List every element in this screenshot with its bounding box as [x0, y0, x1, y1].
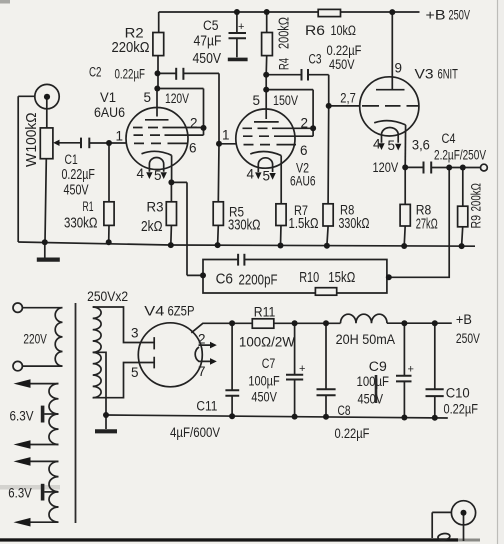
svg-text:6Z5P: 6Z5P: [168, 304, 195, 319]
svg-text:450V: 450V: [358, 392, 384, 407]
svg-text:R4: R4: [276, 58, 292, 70]
svg-text:5: 5: [131, 365, 139, 380]
svg-text:+B: +B: [456, 312, 472, 327]
svg-text:C5: C5: [203, 18, 219, 33]
svg-text:5: 5: [253, 93, 261, 108]
svg-text:+: +: [238, 21, 244, 33]
svg-text:2200pF: 2200pF: [239, 272, 278, 289]
svg-text:R3: R3: [147, 200, 164, 215]
svg-text:W: W: [24, 153, 40, 167]
svg-text:450V: 450V: [193, 51, 222, 67]
svg-text:4: 4: [137, 166, 145, 181]
svg-text:+: +: [408, 364, 414, 376]
svg-text:5: 5: [388, 138, 396, 153]
svg-text:1.5kΩ: 1.5kΩ: [289, 216, 319, 232]
svg-text:4: 4: [247, 167, 255, 182]
svg-text:R2: R2: [125, 26, 144, 41]
svg-text:6: 6: [189, 141, 197, 156]
svg-text:9: 9: [395, 61, 403, 76]
svg-text:C9: C9: [369, 359, 387, 374]
svg-text:1: 1: [222, 128, 230, 143]
svg-text:C1: C1: [65, 152, 78, 167]
svg-text:R6: R6: [305, 23, 325, 38]
svg-text:C3: C3: [309, 52, 322, 67]
svg-text:R10: R10: [299, 270, 319, 286]
svg-text:C8: C8: [338, 403, 351, 418]
svg-text:2,7: 2,7: [340, 91, 356, 106]
svg-text:5: 5: [144, 90, 152, 105]
svg-text:2: 2: [301, 116, 309, 131]
svg-text:6.3V: 6.3V: [10, 409, 34, 424]
svg-text:120V: 120V: [165, 91, 189, 106]
svg-text:10kΩ: 10kΩ: [331, 23, 357, 38]
svg-text:200kΩ: 200kΩ: [469, 183, 484, 211]
svg-text:R11: R11: [254, 305, 275, 320]
svg-text:6AU6: 6AU6: [290, 174, 316, 189]
svg-text:450V: 450V: [64, 183, 89, 199]
svg-text:250V: 250V: [449, 8, 471, 23]
svg-text:1: 1: [116, 129, 124, 144]
svg-text:4: 4: [373, 137, 381, 152]
svg-text:27kΩ: 27kΩ: [416, 217, 438, 233]
svg-text:C2: C2: [89, 65, 102, 80]
svg-text:100µF: 100µF: [357, 374, 390, 389]
svg-text:6: 6: [300, 143, 308, 158]
svg-text:V3: V3: [415, 67, 434, 82]
svg-text:3,6: 3,6: [412, 138, 430, 153]
svg-text:450V: 450V: [329, 57, 355, 72]
svg-text:20H 50mA: 20H 50mA: [336, 332, 396, 347]
svg-text:R9: R9: [469, 215, 484, 228]
svg-text:100Ω/2W: 100Ω/2W: [239, 335, 295, 350]
svg-text:+: +: [299, 363, 305, 375]
svg-text:V1: V1: [100, 90, 116, 105]
svg-text:0.22µF: 0.22µF: [327, 43, 362, 58]
svg-text:C4: C4: [442, 131, 456, 146]
svg-text:C10: C10: [446, 386, 470, 401]
svg-text:330kΩ: 330kΩ: [339, 216, 370, 232]
svg-text:220V: 220V: [23, 332, 47, 347]
svg-text:C7: C7: [262, 356, 276, 371]
svg-text:3: 3: [131, 326, 139, 341]
svg-text:2.2µF/250V: 2.2µF/250V: [434, 148, 486, 163]
svg-text:2kΩ: 2kΩ: [141, 218, 163, 235]
svg-text:R1: R1: [83, 199, 94, 214]
svg-text:200kΩ: 200kΩ: [276, 17, 293, 49]
svg-text:C6: C6: [216, 271, 233, 288]
svg-text:0.22µF: 0.22µF: [62, 167, 96, 183]
svg-text:250V: 250V: [456, 331, 480, 346]
svg-text:47µF: 47µF: [194, 34, 222, 50]
svg-text:330kΩ: 330kΩ: [228, 217, 261, 234]
svg-text:330kΩ: 330kΩ: [64, 215, 98, 232]
svg-text:220kΩ: 220kΩ: [112, 40, 150, 56]
svg-text:R8: R8: [416, 203, 432, 218]
svg-text:150V: 150V: [273, 93, 298, 108]
svg-text:4µF/600V: 4µF/600V: [170, 425, 220, 440]
svg-text:5: 5: [154, 168, 162, 183]
svg-text:2: 2: [198, 332, 206, 347]
svg-text:+B: +B: [426, 8, 446, 23]
svg-text:2: 2: [190, 116, 198, 131]
svg-text:0.22µF: 0.22µF: [444, 402, 479, 417]
svg-text:5: 5: [263, 169, 271, 184]
svg-text:15kΩ: 15kΩ: [328, 270, 355, 286]
svg-text:0.22µF: 0.22µF: [335, 426, 370, 441]
svg-text:6.3V: 6.3V: [8, 486, 32, 501]
svg-text:100kΩ: 100kΩ: [24, 112, 40, 152]
svg-text:V4: V4: [144, 304, 165, 319]
svg-text:100µF: 100µF: [248, 374, 279, 389]
svg-text:120V: 120V: [373, 160, 399, 175]
svg-text:0.22µF: 0.22µF: [115, 67, 146, 82]
svg-text:250Vx2: 250Vx2: [87, 289, 128, 304]
svg-text:450V: 450V: [251, 390, 277, 405]
svg-text:6NIT: 6NIT: [438, 67, 458, 82]
svg-text:C11: C11: [196, 399, 217, 414]
svg-text:6AU6: 6AU6: [94, 105, 125, 120]
svg-text:7: 7: [198, 364, 206, 379]
